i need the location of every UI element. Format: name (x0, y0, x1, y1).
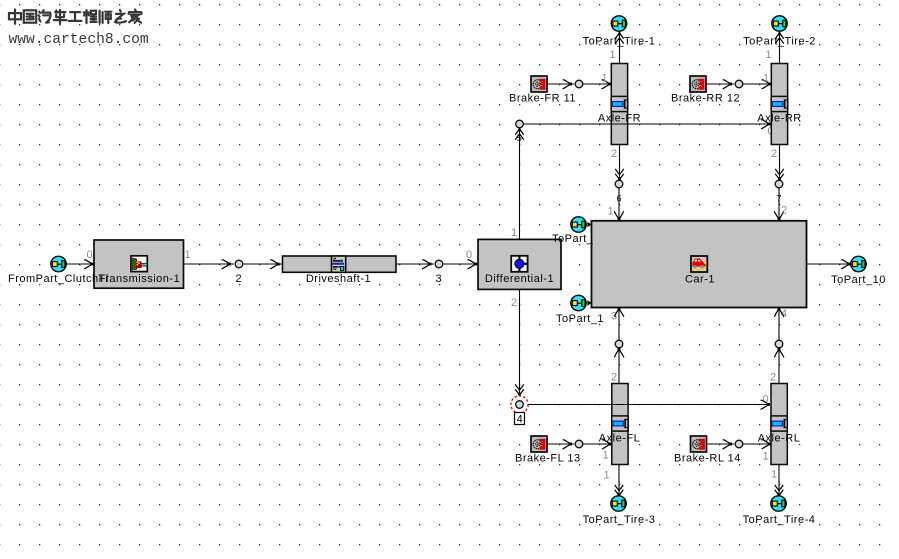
wire brake-fl to node 13 (547, 443, 574, 445)
wire car to ToPart_10 (807, 263, 851, 265)
svg-text:Axle-FR: Axle-FR (598, 113, 641, 125)
wire transmission to node 2 (184, 263, 234, 265)
port FromPart_Clutch (51, 256, 66, 271)
port ToPart_Tire-1 (611, 16, 626, 31)
wire axle-fl down to tire3 (618, 465, 620, 496)
svg-text:3: 3 (435, 273, 441, 285)
svg-text:1: 1 (511, 227, 517, 239)
svg-text:ToPart_Tire-2: ToPart_Tire-2 (743, 35, 816, 47)
node 2 (235, 260, 243, 268)
node 14 (735, 440, 743, 448)
svg-text:Differential-1: Differential-1 (485, 273, 554, 285)
wire node 11 to axle-fr (583, 83, 611, 85)
block Brake-RR (690, 76, 706, 92)
block Axle-FR (611, 64, 627, 145)
wire node 2 to driveshaft (243, 263, 282, 265)
wire brake-fr to node 11 (547, 83, 574, 85)
jia (129, 10, 142, 23)
svg-text:2: 2 (611, 148, 617, 160)
guo (24, 10, 36, 22)
node 8 (615, 340, 623, 348)
svg-text:FromPart_ClutchFl: FromPart_ClutchFl (8, 273, 109, 285)
svg-text:ToPart_Tire-3: ToPart_Tire-3 (583, 514, 656, 526)
svg-text:2: 2 (511, 297, 517, 309)
wire car pin 4 down to node 9 (778, 308, 780, 341)
svg-text:Axle-RR: Axle-RR (757, 113, 801, 125)
svg-text:0: 0 (86, 249, 92, 261)
svg-text:ToPart_1: ToPart_1 (556, 313, 604, 325)
node 9 (775, 340, 783, 348)
block Car-1 (592, 221, 807, 308)
wire node 13 to axle-fl (583, 443, 611, 445)
wire axle-fr down to node 6 (619, 145, 621, 181)
wire node 8 to axle-fl top (618, 348, 620, 384)
block Differential-1 (478, 239, 561, 289)
port ToPart_Tire-4 (771, 496, 786, 511)
wire node 6 to car pin 1 (618, 188, 620, 221)
wire node 3 to differential (443, 263, 477, 265)
svg-text:Axle-RL: Axle-RL (758, 433, 801, 445)
svg-text:1: 1 (609, 49, 615, 61)
wire brake-rl to node 14 (707, 443, 735, 445)
node 6 (615, 180, 623, 188)
block Brake-FL (531, 436, 547, 452)
svg-text:1: 1 (603, 469, 609, 481)
node 3 (435, 260, 443, 268)
svg-text:Brake-FL 13: Brake-FL 13 (515, 452, 581, 464)
che (54, 10, 67, 24)
wire brake-rr to node 12 (706, 83, 734, 85)
node 11 (575, 80, 583, 88)
block Axle-FL (612, 384, 628, 465)
node 5 junction (516, 120, 524, 128)
wire axle-rl down to tire4 (778, 465, 780, 496)
svg-text:1: 1 (607, 205, 613, 217)
wire differential down to node 4 (519, 290, 521, 396)
svg-text:ToPart_10: ToPart_10 (831, 274, 886, 286)
svg-text:0: 0 (466, 249, 472, 261)
svg-text:Driveshaft-1: Driveshaft-1 (306, 273, 371, 285)
port ToPart_10 (851, 256, 866, 271)
zhong (9, 10, 21, 24)
svg-text:1: 1 (601, 73, 607, 85)
svg-text:4: 4 (517, 414, 523, 426)
wire top link node 5 to Axle-RR pin 0 (524, 123, 771, 125)
svg-text:Brake-RR 12: Brake-RR 12 (671, 92, 740, 104)
svg-text:2: 2 (611, 371, 617, 383)
port ToPart_1 (car left bottom) (571, 295, 586, 310)
block Transmission-1 (94, 240, 184, 288)
shi (100, 11, 112, 23)
block Brake-RL (691, 436, 707, 452)
wire node 9 to axle-rl top (778, 348, 780, 384)
svg-text:Transmission-1: Transmission-1 (98, 273, 180, 285)
node 7 (775, 180, 783, 188)
node 13 (575, 440, 583, 448)
gong (69, 12, 82, 21)
node 4 selected (511, 396, 528, 413)
svg-text:2: 2 (235, 273, 241, 285)
svg-text:1: 1 (602, 450, 608, 462)
block Driveshaft-1 (283, 256, 397, 285)
wire driveshaft to node 3 (396, 263, 434, 265)
zhi (115, 10, 126, 23)
qi (39, 10, 51, 23)
watermark chinese title (9, 10, 142, 25)
svg-text:ToPart_Tire-1: ToPart_Tire-1 (583, 35, 656, 47)
node 12 (735, 80, 743, 88)
wire axle-rr down to node 7 (779, 145, 781, 181)
wire differential up to node 5 (519, 128, 521, 239)
svg-text:ToPart_: ToPart_ (552, 233, 594, 245)
svg-text:ToPart_Tire-4: ToPart_Tire-4 (743, 514, 816, 526)
block Brake-FR (531, 76, 547, 92)
svg-text:2: 2 (781, 205, 787, 217)
svg-text:1: 1 (763, 73, 769, 85)
port ToPart_Tire-3 (611, 496, 626, 511)
wire car pin 3 down to node 8 (618, 308, 620, 341)
svg-text:Brake-RL 14: Brake-RL 14 (674, 452, 741, 464)
svg-text:5: 5 (517, 133, 522, 143)
svg-text:2: 2 (771, 148, 777, 160)
port ToPart_Tire-2 (772, 16, 787, 31)
wire node 14 to axle-rl (743, 443, 771, 445)
node 4 label box (515, 413, 525, 425)
wire node 12 to axle-rr (743, 83, 771, 85)
block Axle-RR (771, 64, 787, 145)
svg-text:Car-1: Car-1 (685, 273, 715, 285)
svg-text:1: 1 (771, 468, 777, 480)
svg-text:1: 1 (765, 49, 771, 61)
svg-text:Axle-FL: Axle-FL (599, 433, 640, 445)
svg-text:1: 1 (184, 249, 190, 261)
wire bottom link node 4 to Axle-RL pin 0 (529, 404, 771, 406)
cheng (84, 10, 97, 23)
svg-text:Brake-FR 11: Brake-FR 11 (509, 92, 576, 104)
svg-text:1: 1 (762, 451, 768, 463)
wire port to transmission (66, 263, 93, 265)
port ToPart_ (car left top) (571, 217, 586, 232)
wire tire1 down to Axle-FR (619, 32, 621, 64)
svg-text:2: 2 (770, 371, 776, 383)
block Axle-RL (771, 384, 787, 465)
wire node 7 to car pin 2 (778, 188, 780, 221)
svg-text:www.cartech8.com: www.cartech8.com (9, 32, 149, 48)
